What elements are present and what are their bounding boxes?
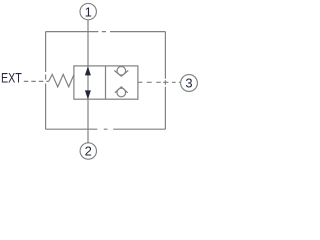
svg-text:3: 3 (185, 76, 192, 91)
EXT pilot dashed line (24, 80, 49, 82)
svg-text:2: 2 (85, 144, 92, 159)
port 3 circle (181, 75, 198, 92)
port 1 circle (80, 3, 96, 19)
envelope bottom edge (chain line) (46, 128, 166, 130)
port 2 circle (80, 143, 96, 159)
spring (49, 74, 74, 87)
envelope left edge (45, 32, 47, 130)
arrow down (85, 90, 91, 99)
check valve CV1 seat (114, 71, 128, 77)
pilot dashed line to port 3 (138, 81, 181, 83)
arrow up (85, 66, 91, 75)
check valve CV1 circle (117, 67, 126, 76)
svg-text:EXT: EXT (1, 70, 22, 86)
valve body (74, 66, 138, 99)
valve body divider (105, 66, 107, 99)
wire port1-port2 line (87, 20, 89, 143)
envelope top edge (chain line) (46, 31, 166, 33)
check valve CV2 seat (115, 87, 128, 93)
svg-text:1: 1 (85, 4, 92, 19)
check valve CV2 circle (117, 88, 126, 97)
envelope right edge (164, 32, 166, 130)
